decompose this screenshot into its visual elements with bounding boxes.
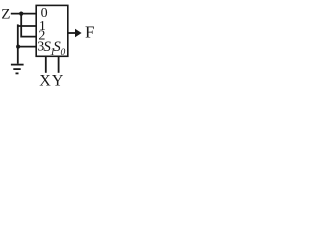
svg-text:F: F: [85, 23, 94, 42]
svg-text:Y: Y: [52, 73, 64, 88]
svg-text:0: 0: [61, 48, 66, 58]
svg-text:X: X: [39, 73, 51, 88]
svg-text:Z: Z: [1, 7, 10, 23]
